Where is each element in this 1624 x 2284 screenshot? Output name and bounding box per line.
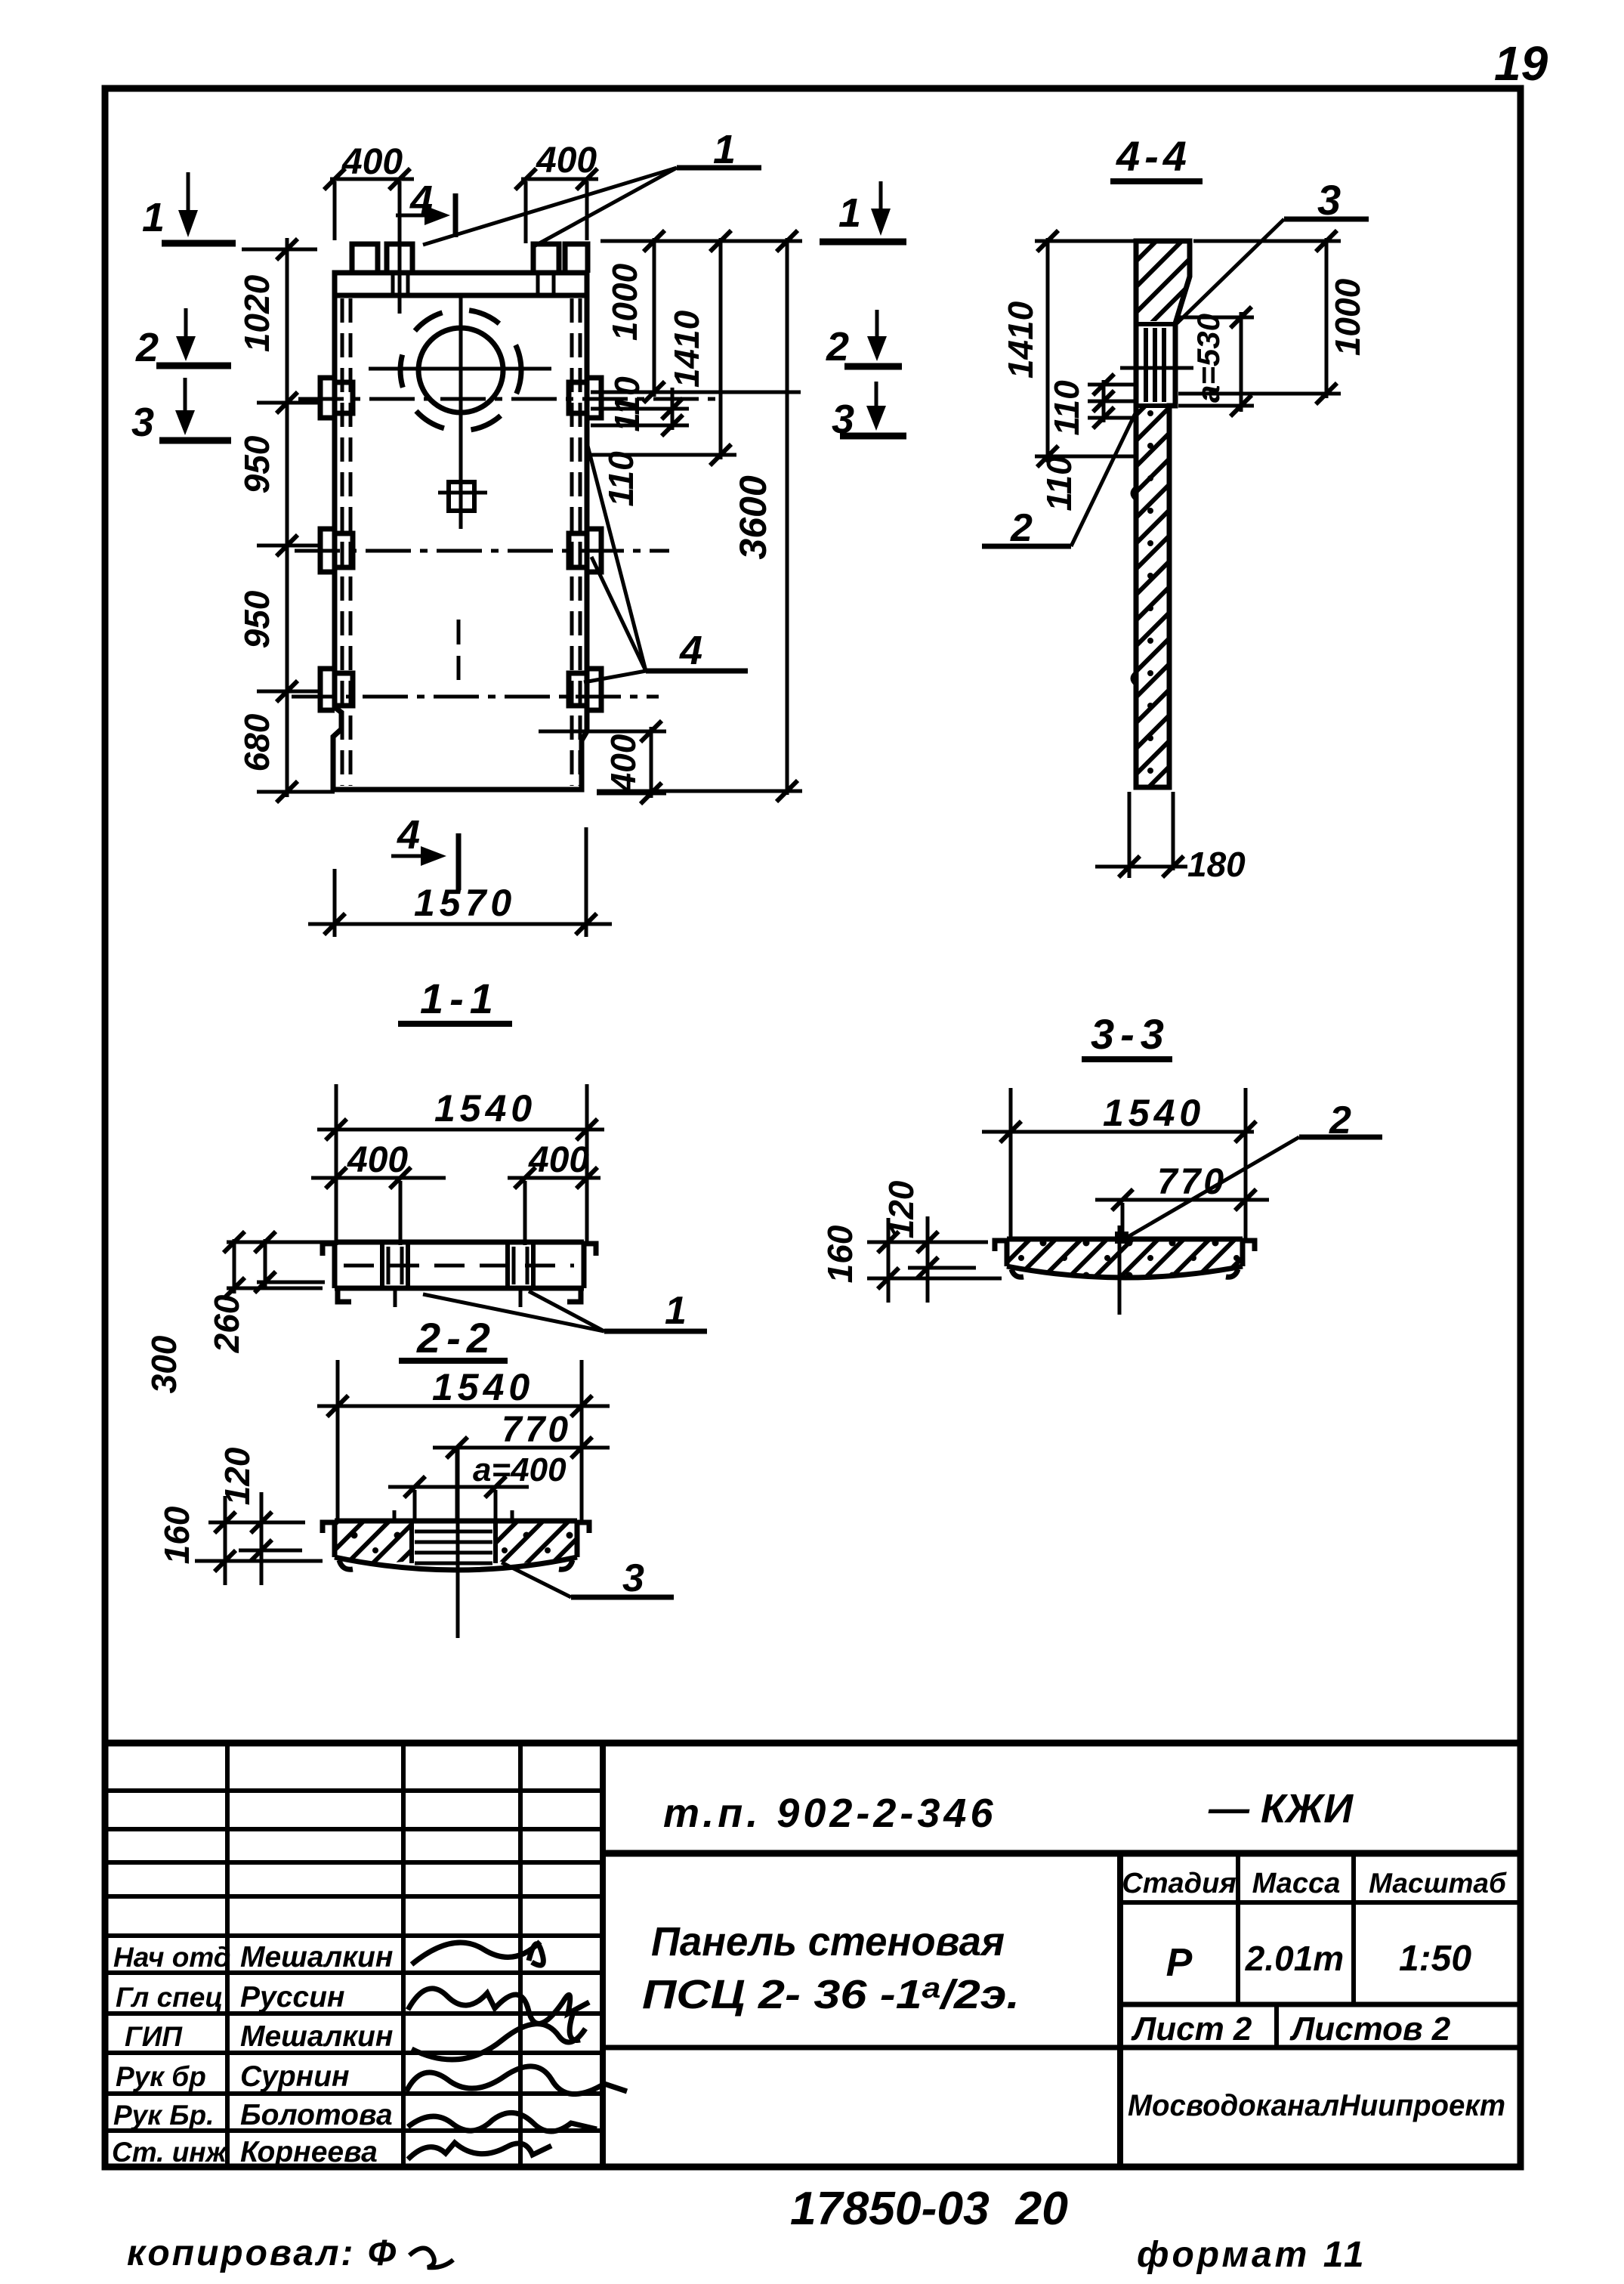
svg-text:400: 400 — [604, 734, 643, 793]
svg-text:110: 110 — [1047, 380, 1086, 436]
svg-text:110: 110 — [607, 376, 647, 432]
svg-text:1: 1 — [142, 195, 165, 240]
svg-text:Гл спец: Гл спец — [116, 1982, 223, 2013]
svg-text:Рук Бр.: Рук Бр. — [113, 2100, 214, 2131]
svg-text:Нач отд: Нач отд — [113, 1942, 231, 1973]
svg-text:Масштаб: Масштаб — [1369, 1868, 1507, 1899]
svg-text:Панель стеновая: Панель стеновая — [651, 1919, 1005, 1964]
svg-text:Р: Р — [1166, 1941, 1193, 1985]
svg-text:1410: 1410 — [1001, 301, 1040, 379]
svg-text:Стадия: Стадия — [1122, 1868, 1236, 1899]
svg-text:4-4: 4-4 — [1116, 132, 1191, 180]
svg-text:400: 400 — [528, 1140, 589, 1180]
svg-text:1-1: 1-1 — [420, 975, 499, 1022]
svg-text:1540: 1540 — [1103, 1092, 1205, 1134]
svg-text:17850-03 20: 17850-03 20 — [790, 2183, 1068, 2235]
svg-text:1000: 1000 — [1328, 278, 1367, 356]
svg-text:300: 300 — [144, 1335, 184, 1393]
svg-text:ГИП: ГИП — [125, 2021, 183, 2052]
svg-text:2: 2 — [135, 325, 159, 370]
svg-text:120: 120 — [881, 1180, 921, 1238]
svg-text:1:50: 1:50 — [1399, 1939, 1471, 1979]
svg-text:3: 3 — [622, 1556, 644, 1600]
svg-text:Ст. инж: Ст. инж — [112, 2137, 228, 2168]
svg-text:Сурнин: Сурнин — [240, 2060, 350, 2093]
svg-text:1410: 1410 — [667, 310, 706, 388]
svg-text:2.01т: 2.01т — [1245, 1939, 1344, 1978]
svg-text:a=400: a=400 — [473, 1451, 567, 1488]
svg-text:Болотова: Болотова — [240, 2099, 393, 2131]
svg-text:680: 680 — [237, 713, 276, 771]
svg-text:Масса: Масса — [1252, 1868, 1341, 1899]
svg-text:160: 160 — [157, 1506, 196, 1564]
svg-text:Руссин: Руссин — [240, 1981, 344, 2014]
svg-text:4: 4 — [679, 628, 702, 673]
svg-text:копировал: Ф: копировал: Ф — [127, 2233, 398, 2273]
svg-text:4: 4 — [397, 812, 420, 858]
svg-text:110: 110 — [601, 451, 641, 507]
svg-text:1: 1 — [838, 190, 861, 236]
svg-text:950: 950 — [237, 435, 276, 493]
svg-text:ПСЦ 2- 36 -1а/2э.: ПСЦ 2- 36 -1а/2э. — [642, 1972, 1020, 2017]
svg-text:19: 19 — [1494, 36, 1548, 91]
svg-text:1020: 1020 — [237, 274, 276, 352]
svg-text:a=530: a=530 — [1190, 314, 1226, 403]
svg-text:180: 180 — [1187, 845, 1246, 884]
svg-text:т.п. 902-2-346: т.п. 902-2-346 — [663, 1791, 997, 1836]
svg-text:Корнеева: Корнеева — [240, 2136, 378, 2168]
svg-text:160: 160 — [820, 1225, 860, 1283]
svg-text:3: 3 — [131, 400, 154, 445]
svg-text:1540: 1540 — [432, 1366, 534, 1408]
svg-text:260: 260 — [207, 1294, 246, 1353]
svg-text:Листов 2: Листов 2 — [1289, 2010, 1451, 2048]
svg-text:400: 400 — [536, 141, 597, 181]
svg-text:770: 770 — [502, 1410, 571, 1450]
svg-text:3: 3 — [832, 397, 854, 442]
svg-text:2-2: 2-2 — [416, 1314, 496, 1361]
svg-text:400: 400 — [347, 1140, 408, 1180]
svg-text:Рук бр: Рук бр — [116, 2061, 206, 2092]
svg-text:110: 110 — [1039, 456, 1079, 512]
svg-text:Мешалкин: Мешалкин — [240, 1941, 393, 1973]
svg-text:— КЖИ: — КЖИ — [1208, 1786, 1354, 1831]
svg-text:770: 770 — [1157, 1162, 1227, 1202]
svg-text:2: 2 — [826, 324, 849, 369]
svg-text:1540: 1540 — [434, 1087, 536, 1130]
svg-text:120: 120 — [218, 1447, 257, 1505]
svg-text:Мешалкин: Мешалкин — [240, 2020, 393, 2053]
svg-text:МосводоканалНиипроект: МосводоканалНиипроект — [1128, 2089, 1505, 2122]
svg-text:950: 950 — [237, 590, 276, 648]
svg-text:1000: 1000 — [605, 263, 644, 341]
svg-text:формат 11: формат 11 — [1137, 2235, 1367, 2275]
svg-text:2: 2 — [1010, 506, 1033, 550]
svg-text:3600: 3600 — [732, 475, 774, 559]
svg-text:3-3: 3-3 — [1091, 1010, 1170, 1058]
svg-text:1: 1 — [665, 1289, 687, 1333]
svg-text:Лист 2: Лист 2 — [1131, 2010, 1252, 2048]
svg-text:400: 400 — [341, 142, 403, 182]
svg-text:1570: 1570 — [414, 882, 516, 924]
